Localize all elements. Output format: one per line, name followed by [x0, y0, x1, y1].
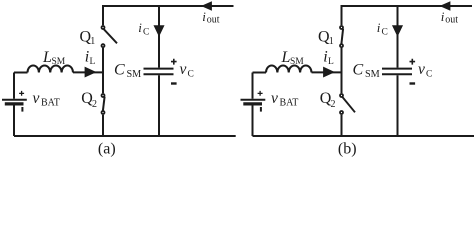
svg-text:(b): (b): [338, 140, 357, 157]
svg-text:(a): (a): [98, 140, 116, 157]
